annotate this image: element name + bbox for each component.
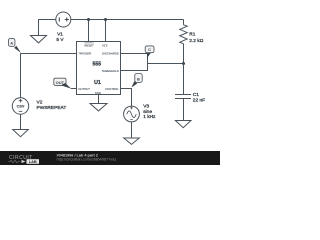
wire VCC stub bbox=[105, 20, 107, 42]
svg-text:C: C bbox=[148, 47, 151, 52]
ground (C1) bbox=[175, 121, 191, 128]
svg-text:U1: U1 bbox=[94, 80, 101, 86]
svg-text:C1: C1 bbox=[193, 92, 199, 98]
junction dot R1/C1/threshold bbox=[182, 62, 185, 65]
wire node A down to V2 bbox=[20, 54, 22, 98]
wire OUT to OUTPUT pin bbox=[71, 88, 77, 90]
svg-text:2.2 kΩ: 2.2 kΩ bbox=[189, 38, 203, 44]
svg-text:GND: GND bbox=[95, 91, 101, 95]
node C flag bbox=[145, 46, 154, 58]
node OUT flag bbox=[54, 78, 72, 89]
svg-text:OUTPUT: OUTPUT bbox=[78, 87, 90, 91]
svg-text:CSV: CSV bbox=[17, 105, 25, 109]
svg-text:TRIGGER: TRIGGER bbox=[78, 52, 91, 56]
wire DISCHARGE/THRESHOLD to junction bbox=[121, 54, 148, 71]
voltage source V2 CSV bbox=[12, 98, 28, 114]
wire junction to R1/C1 node bbox=[148, 63, 184, 65]
svg-text:R1: R1 bbox=[189, 31, 195, 37]
voltage source V3 sine bbox=[124, 106, 140, 122]
svg-text:VCC: VCC bbox=[102, 43, 109, 47]
ground (V2) bbox=[13, 130, 29, 137]
node B flag bbox=[132, 74, 143, 88]
svg-text:CONTROL: CONTROL bbox=[105, 87, 119, 91]
svg-text:5 V: 5 V bbox=[56, 37, 64, 43]
footer bar bbox=[0, 151, 220, 165]
IC U1 555 bbox=[77, 42, 121, 96]
capacitor C1 bbox=[175, 64, 191, 121]
resistor R1 bbox=[180, 20, 187, 64]
svg-text:PWSREPEAT: PWSREPEAT bbox=[37, 105, 67, 111]
svg-text:DISCHARGE: DISCHARGE bbox=[102, 52, 119, 56]
junction dot at rail/RESET bbox=[87, 18, 90, 21]
svg-text:http://circuitlab.com/c9864967: http://circuitlab.com/c98649677vaz bbox=[57, 157, 117, 162]
svg-text:RESET: RESET bbox=[84, 43, 94, 47]
wire V3 to ground bbox=[131, 122, 133, 138]
wire node A to TRIGGER bbox=[21, 53, 77, 55]
svg-text:A: A bbox=[10, 41, 13, 46]
ground (U1) bbox=[90, 104, 107, 111]
svg-text:1 kHz: 1 kHz bbox=[143, 114, 156, 120]
svg-text:V2: V2 bbox=[37, 100, 43, 106]
ground (V3) bbox=[124, 138, 140, 144]
svg-text:V1: V1 bbox=[57, 31, 63, 37]
wire top rail from V1 to R1 bbox=[71, 19, 184, 21]
junction dot at rail/VCC bbox=[104, 18, 107, 21]
svg-text:555: 555 bbox=[92, 61, 101, 67]
wire CONTROL to V3 bbox=[121, 89, 132, 107]
wire RESET stub bbox=[88, 20, 90, 42]
ground (V1) bbox=[31, 36, 47, 43]
svg-text:B: B bbox=[137, 77, 140, 82]
node A flag bbox=[9, 39, 22, 53]
svg-text:V3: V3 bbox=[143, 104, 149, 110]
voltage source V1 bbox=[56, 12, 71, 27]
wire U1 GND to ground bbox=[98, 95, 100, 104]
svg-text:sine: sine bbox=[143, 109, 152, 115]
svg-text:THRESHOLD: THRESHOLD bbox=[102, 69, 119, 73]
svg-text:LAB: LAB bbox=[29, 159, 37, 164]
wire V1 left to ground bbox=[39, 20, 56, 36]
svg-text:22 nF: 22 nF bbox=[193, 98, 205, 104]
wire V2 to ground bbox=[20, 114, 22, 129]
